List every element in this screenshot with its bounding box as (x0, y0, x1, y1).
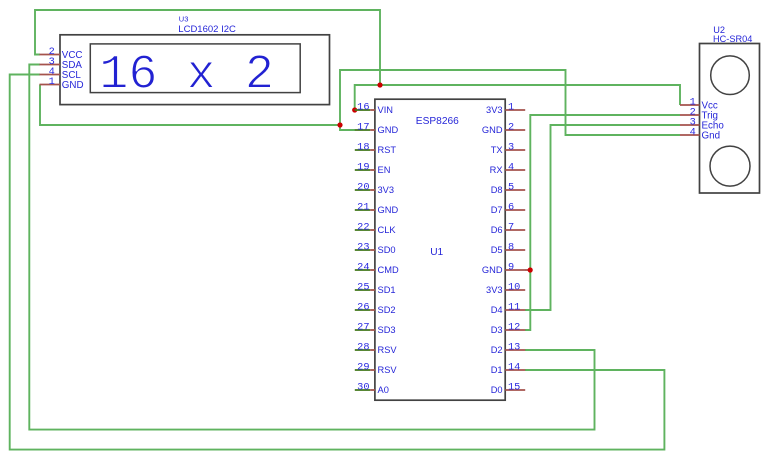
LCD pin 2 VCC (40, 46, 83, 61)
wire VCC net: horizontal bus to HC-SR04 (355, 85, 680, 110)
svg-text:GND: GND (378, 205, 399, 215)
svg-text:5: 5 (508, 181, 514, 193)
svg-text:D0: D0 (491, 385, 503, 395)
svg-text:CLK: CLK (378, 225, 397, 235)
svg-text:23: 23 (357, 241, 369, 253)
ESP pin 24 CMD (355, 261, 399, 275)
ESP pin 7 D6 (491, 221, 525, 235)
svg-text:CMD: CMD (378, 265, 399, 275)
wire stub GND9 (525, 269, 529, 271)
svg-text:D3: D3 (491, 325, 503, 335)
HC-SR04 pin 1 Vcc (680, 96, 718, 111)
svg-text:30: 30 (357, 381, 369, 393)
svg-text:15: 15 (508, 381, 520, 393)
LCD pin 3 SDA (40, 56, 83, 71)
ESP pin 30 A0 (355, 381, 389, 395)
svg-text:2: 2 (508, 121, 514, 133)
svg-text:13: 13 (508, 341, 520, 353)
svg-text:D4: D4 (491, 305, 503, 315)
LCD pin 1 GND (40, 76, 84, 91)
ESP pin 16 VIN (355, 101, 393, 115)
wire SCL net: D1 to LCD SCL (10, 75, 665, 450)
svg-text:9: 9 (508, 261, 514, 273)
svg-text:LCD1602 I2C: LCD1602 I2C (178, 24, 236, 35)
svg-text:RSV: RSV (378, 345, 398, 355)
svg-text:28: 28 (357, 341, 369, 353)
junction dot GND (337, 122, 342, 127)
svg-text:3V3: 3V3 (378, 185, 395, 195)
svg-text:14: 14 (508, 361, 520, 373)
HC-SR04 U2 component box (700, 44, 760, 194)
wire SDA net: D2 to LCD SDA (29, 65, 594, 430)
svg-text:11: 11 (508, 301, 520, 313)
ESP pin 26 SD2 (355, 301, 396, 315)
svg-text:TX: TX (491, 145, 503, 155)
svg-text:4: 4 (690, 126, 696, 138)
svg-text:25: 25 (357, 281, 369, 293)
svg-text:24: 24 (357, 261, 369, 273)
svg-text:A0: A0 (378, 385, 389, 395)
wire Trig net: vertical D3/GND9/Trig (525, 115, 680, 330)
svg-text:D7: D7 (491, 205, 503, 215)
svg-text:GND: GND (378, 125, 399, 135)
LCD pin 4 SCL (40, 66, 82, 81)
ESP pin 6 D7 (491, 201, 525, 215)
svg-text:19: 19 (357, 161, 369, 173)
HC-SR04 pin 3 Echo (680, 116, 724, 131)
svg-text:RSV: RSV (378, 365, 398, 375)
svg-text:SD1: SD1 (378, 285, 396, 295)
svg-text:U3: U3 (179, 15, 189, 24)
HC-SR04 pin 4 Gnd (680, 126, 720, 141)
svg-text:10: 10 (508, 281, 520, 293)
svg-text:GND: GND (482, 265, 503, 275)
ESP pin 10 3V3 (486, 281, 525, 295)
svg-text:21: 21 (357, 201, 369, 213)
ESP pin 15 D0 (491, 381, 525, 395)
svg-text:3V3: 3V3 (486, 105, 503, 115)
svg-text:HC-SR04: HC-SR04 (713, 34, 752, 44)
ESP pin 29 RSV (355, 361, 398, 375)
ESP pin 9 GND (482, 261, 525, 275)
ESP pin 11 D4 (491, 301, 525, 315)
svg-text:D2: D2 (491, 345, 503, 355)
ESP pin 28 RSV (355, 341, 398, 355)
svg-text:EN: EN (378, 165, 391, 175)
junction dot GND9 (528, 267, 533, 272)
ESP pin 25 SD1 (355, 281, 396, 295)
svg-text:RX: RX (490, 165, 503, 175)
ESP pin 4 RX (490, 161, 526, 175)
svg-text:SD3: SD3 (378, 325, 396, 335)
svg-text:U1: U1 (430, 247, 443, 258)
svg-text:GND: GND (62, 80, 84, 91)
svg-text:26: 26 (357, 301, 369, 313)
ESP pin 8 D5 (491, 241, 525, 255)
svg-text:1: 1 (508, 101, 514, 113)
wire GND net: to ESP GND pin17 (340, 125, 355, 130)
svg-text:D5: D5 (491, 245, 503, 255)
svg-text:7: 7 (508, 221, 514, 233)
wire Echo net: D4 to Echo (525, 125, 680, 310)
ESP pin 14 D1 (491, 361, 525, 375)
ESP pin 20 3V3 (355, 181, 394, 195)
HC-SR04 pin 2 Trig (680, 106, 718, 121)
svg-text:27: 27 (357, 321, 369, 333)
svg-text:3: 3 (508, 141, 514, 153)
ESP pin 12 D3 (491, 321, 525, 335)
svg-text:VIN: VIN (378, 105, 394, 115)
ESP pin 3 TX (491, 141, 525, 155)
ESP pin 1 3V3 (486, 101, 525, 115)
LCD U3 component box (60, 35, 330, 105)
svg-text:16 x 2: 16 x 2 (99, 48, 274, 103)
svg-text:SD0: SD0 (378, 245, 396, 255)
ESP pin 21 GND (355, 201, 399, 215)
svg-text:6: 6 (508, 201, 514, 213)
svg-text:17: 17 (357, 121, 369, 133)
ESP pin 2 GND (482, 121, 525, 135)
svg-text:18: 18 (357, 141, 369, 153)
ESP8266 U1 component box (375, 99, 505, 400)
junction dot top bus (377, 82, 382, 87)
svg-text:D1: D1 (491, 365, 503, 375)
svg-text:16: 16 (357, 101, 369, 113)
svg-text:Gnd: Gnd (702, 130, 721, 141)
ESP pin 5 D8 (491, 181, 525, 195)
ESP pin 18 RST (355, 141, 397, 155)
wire GND net: up over ESP to HC-SR04 Gnd (340, 70, 680, 135)
ESP pin 23 SD0 (355, 241, 396, 255)
ESP pin 13 D2 (491, 341, 525, 355)
svg-text:12: 12 (508, 321, 520, 333)
ESP pin 19 EN (355, 161, 391, 175)
ESP pin 27 SD3 (355, 321, 396, 335)
svg-text:20: 20 (357, 181, 369, 193)
ESP pin 17 GND (355, 121, 399, 135)
svg-text:8: 8 (508, 241, 514, 253)
svg-text:RST: RST (378, 145, 397, 155)
HC-SR04 transducer circle top (711, 56, 750, 95)
svg-text:ESP8266: ESP8266 (416, 116, 459, 127)
svg-text:3V3: 3V3 (486, 285, 503, 295)
svg-text:D6: D6 (491, 225, 503, 235)
svg-text:4: 4 (508, 161, 514, 173)
wire VCC net: LCD VCC stub (35, 10, 380, 85)
ESP pin 22 CLK (355, 221, 397, 235)
wire GND net: LCD GND down and across (40, 85, 340, 126)
HC-SR04 transducer circle bottom (710, 146, 750, 186)
svg-text:GND: GND (482, 125, 503, 135)
svg-text:SD2: SD2 (378, 305, 396, 315)
svg-text:22: 22 (357, 221, 369, 233)
junction dot at VIN (352, 107, 357, 112)
svg-text:29: 29 (357, 361, 369, 373)
svg-text:D8: D8 (491, 185, 503, 195)
svg-text:1: 1 (49, 76, 55, 88)
